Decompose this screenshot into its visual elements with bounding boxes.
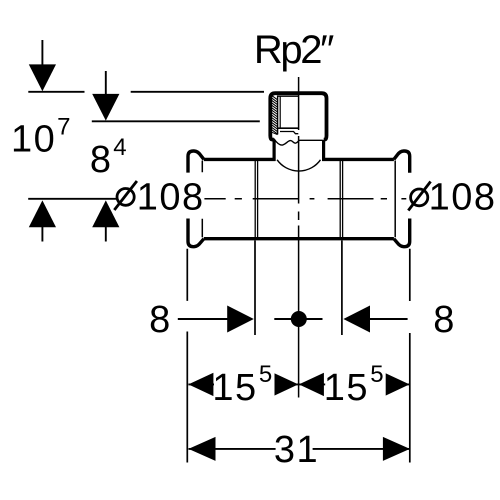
press bead bottom-right bbox=[394, 219, 410, 247]
dim 8 left tail bbox=[178, 318, 228, 320]
svg-text:4: 4 bbox=[113, 134, 126, 161]
threaded cap outline bbox=[270, 93, 326, 139]
svg-text:8: 8 bbox=[433, 299, 456, 341]
label dia 108 right symbol bbox=[408, 182, 430, 211]
arrowhead right dim31 bbox=[383, 437, 410, 461]
thread inner edge bbox=[277, 95, 279, 134]
vertical centerline segment 1 bbox=[298, 77, 300, 130]
saddle arc bbox=[277, 160, 320, 171]
svg-text:10: 10 bbox=[11, 118, 56, 160]
svg-text:15: 15 bbox=[324, 367, 369, 409]
tee body bottom edge wire bbox=[204, 237, 394, 240]
extension line socket left bbox=[254, 241, 256, 336]
extension line outer right bbox=[409, 249, 411, 463]
arrowhead down dim8 bbox=[92, 94, 119, 121]
dim 15.5 line right bbox=[298, 383, 409, 385]
socket depth lines right bbox=[340, 161, 342, 238]
svg-text:5: 5 bbox=[259, 361, 272, 388]
arrowhead right dim8-left bbox=[227, 306, 254, 333]
dim 8 tick line bbox=[92, 120, 260, 122]
svg-text:31: 31 bbox=[274, 429, 319, 471]
press bead top-left bbox=[188, 151, 204, 173]
arrowhead left dim15.5-left bbox=[188, 373, 213, 396]
thread hatch bbox=[272, 95, 278, 134]
press bead bottom-left bbox=[188, 219, 204, 247]
dim 31 line bbox=[189, 448, 410, 450]
svg-text:15: 15 bbox=[212, 367, 257, 409]
press bead top-right bbox=[394, 151, 410, 173]
horizontal centerline left solid tick bbox=[28, 198, 116, 200]
svg-text:108: 108 bbox=[137, 177, 205, 219]
svg-text:8: 8 bbox=[90, 139, 113, 181]
dim 8 upper arrow stem bbox=[105, 71, 107, 96]
text mask 31 bbox=[276, 432, 313, 466]
center point dot bbox=[291, 311, 307, 327]
vertical centerline segment 3 bbox=[298, 226, 300, 398]
arrowhead up dim8 bbox=[92, 200, 119, 227]
center point crosshair bbox=[274, 318, 322, 320]
tee body top edge right wire bbox=[322, 158, 394, 161]
text mask 15.5 right bbox=[325, 361, 386, 402]
arrowhead right dim15.5-right bbox=[385, 373, 410, 396]
arrowhead up dim10 bbox=[29, 200, 56, 227]
extension line socket right bbox=[341, 241, 343, 336]
svg-text:8: 8 bbox=[149, 299, 172, 341]
socket depth lines left bbox=[255, 161, 257, 238]
thread bottom ledge bbox=[278, 127, 299, 129]
break squiggle under cap bbox=[274, 139, 323, 145]
dim 10 upper arrow stem bbox=[41, 40, 43, 67]
label dia 108 left symbol bbox=[114, 181, 137, 210]
vertical centerline dash bbox=[298, 212, 300, 221]
text mask 15.5 left bbox=[214, 361, 275, 402]
svg-text:5: 5 bbox=[370, 361, 383, 388]
bore top edge bbox=[278, 95, 299, 97]
arrowhead down dim10 bbox=[29, 64, 56, 91]
tube end edge left (broken for label) bbox=[201, 161, 203, 238]
arrowhead left dim8-right bbox=[343, 306, 370, 333]
arrowhead right dim15.5-left bbox=[273, 373, 298, 396]
extension line outer left bbox=[186, 249, 188, 463]
bore wall line bbox=[279, 96, 281, 128]
tube end edge right bbox=[394, 161, 396, 238]
branch neck right bbox=[322, 140, 325, 161]
arrowhead left dim31 bbox=[189, 437, 216, 461]
dim 10 lower arrow stem bbox=[41, 227, 43, 242]
svg-text:108: 108 bbox=[429, 177, 497, 219]
arrowhead left dim15.5-right bbox=[299, 373, 324, 396]
thread relief line bbox=[280, 132, 298, 134]
dim 8 lower arrow stem bbox=[105, 227, 107, 242]
tee body top edge left wire bbox=[204, 158, 276, 161]
dim 10 tick line bbox=[28, 91, 264, 93]
dim 8 right tail bbox=[370, 318, 408, 320]
vertical centerline segment 2 bbox=[298, 136, 300, 204]
branch neck left bbox=[273, 140, 276, 161]
dim 15.5 line left bbox=[188, 383, 298, 385]
svg-text:Rp2″: Rp2″ bbox=[254, 28, 334, 72]
svg-text:7: 7 bbox=[57, 114, 70, 141]
horizontal centerline dash-dot bbox=[204, 198, 406, 200]
